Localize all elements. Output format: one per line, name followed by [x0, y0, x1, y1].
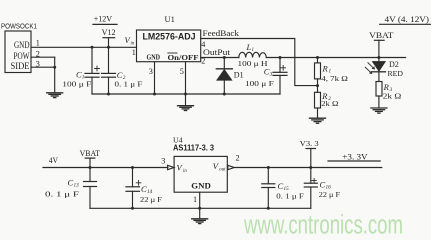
pin 3 number	[36, 59, 40, 68]
label R3	[383, 82, 393, 93]
capacitor C15	[262, 168, 275, 209]
junction pin1/bottom bus	[198, 207, 201, 210]
label RED	[388, 69, 404, 78]
svg-text:1: 1	[193, 195, 197, 204]
label U4	[173, 136, 183, 145]
svg-text:in: in	[183, 169, 187, 174]
svg-text:0. 1 μ F: 0. 1 μ F	[276, 191, 304, 200]
svg-text:1: 1	[132, 48, 136, 57]
junction V12/C2/rail	[107, 46, 110, 49]
svg-text:2k Ω: 2k Ω	[321, 99, 338, 108]
regulator U1 box	[137, 30, 201, 62]
pin arrow Vin (U4)	[168, 165, 174, 169]
diode D1	[216, 58, 232, 95]
pin name OutPut	[203, 47, 231, 57]
svg-text:1: 1	[252, 48, 255, 53]
value 0.1uF (C13)	[45, 190, 80, 199]
connector POWSOCK1	[1, 22, 37, 73]
pin name Vout (U4)	[213, 161, 226, 172]
net label 4V (4.12V)	[380, 14, 431, 25]
wire bus to ground symbol	[185, 94, 187, 106]
svg-text:On/OFF: On/OFF	[168, 53, 199, 62]
capacitor C13	[84, 168, 97, 209]
label C13	[68, 177, 80, 188]
svg-text:LM2576-ADJ: LM2576-ADJ	[143, 32, 196, 42]
svg-text:GND: GND	[147, 52, 161, 61]
junction C2/bus	[107, 93, 110, 96]
svg-text:GND: GND	[191, 181, 211, 190]
capacitor C2	[102, 47, 116, 94]
watermark www.cntronics.com	[243, 210, 403, 240]
junction VBAT/rail	[377, 56, 380, 59]
junction pin3	[53, 66, 56, 69]
wire POW/SIDE to ground	[54, 57, 56, 92]
svg-text:V12: V12	[102, 27, 116, 37]
value 22uF (C14)	[140, 195, 163, 204]
svg-text:D2: D2	[389, 60, 399, 69]
pin number 1 (U1)	[132, 48, 136, 57]
label C15	[278, 181, 290, 192]
svg-text:www.cntronics.com: www.cntronics.com	[243, 210, 403, 240]
wire ground bus	[92, 93, 280, 95]
svg-text:4V: 4V	[49, 156, 58, 165]
svg-text:out: out	[219, 167, 226, 172]
junction D1/bus	[223, 93, 226, 96]
junction C15/bus	[267, 207, 270, 210]
value 100uF (C1)	[62, 80, 92, 89]
svg-text:V3. 3: V3. 3	[300, 139, 319, 148]
svg-text:1: 1	[36, 38, 40, 47]
svg-text:2k Ω: 2k Ω	[383, 92, 402, 101]
junction C3	[279, 56, 282, 59]
value 4.7k (R1)	[321, 74, 348, 83]
pin name On/OFF (U1)	[168, 53, 199, 62]
pin number 1 (U4)	[193, 195, 197, 204]
pin number 2 (U1)	[201, 56, 205, 65]
label U1	[165, 14, 175, 24]
ground (main bus)	[178, 106, 194, 111]
junction D1	[223, 56, 226, 59]
label R1	[322, 64, 332, 75]
label C3	[264, 67, 273, 78]
power port V12	[102, 27, 116, 47]
wire feedback	[201, 39, 318, 86]
wire SIDE pin 3	[31, 66, 55, 68]
junction pin3/bus	[153, 93, 156, 96]
ground (R3)	[371, 108, 387, 113]
svg-text:22 μ F: 22 μ F	[319, 190, 341, 199]
net label +3.3V	[328, 152, 380, 162]
junction C1/rail	[91, 46, 94, 49]
value 100uF (C3)	[245, 79, 275, 88]
wire 12V input rail	[31, 46, 137, 48]
wire U1 GND pin 3	[154, 62, 156, 94]
LED D2	[365, 58, 385, 74]
pin name GND (U4)	[191, 181, 211, 190]
wire output rail	[201, 57, 406, 59]
svg-text:3: 3	[149, 67, 153, 76]
pin number 5 (U1)	[180, 67, 184, 76]
svg-text:RED: RED	[388, 69, 404, 78]
label C1	[76, 69, 85, 80]
pin 2 number	[36, 49, 40, 58]
svg-text:U1: U1	[165, 14, 175, 24]
pin number 3 (U1)	[149, 67, 153, 76]
pin name GND (U1)	[147, 52, 161, 61]
svg-text:R: R	[322, 64, 329, 74]
svg-text:+3. 3V: +3. 3V	[342, 152, 368, 162]
svg-text:GND: GND	[14, 40, 30, 50]
svg-text:R: R	[383, 82, 390, 92]
svg-text:14: 14	[147, 188, 153, 195]
label C14	[141, 184, 153, 195]
ground (R2)	[310, 118, 326, 123]
svg-text:3: 3	[270, 72, 273, 78]
svg-text:D1: D1	[234, 70, 244, 79]
ground (power socket)	[47, 93, 63, 98]
resistor R1	[315, 58, 321, 86]
svg-text:POWSOCK1: POWSOCK1	[1, 22, 37, 31]
label D2	[389, 60, 399, 69]
wire U4 GND pin 1	[199, 192, 201, 218]
value 22uF (C16)	[319, 190, 341, 199]
svg-text:VBAT: VBAT	[369, 30, 394, 40]
junction pin5/bus	[184, 93, 187, 96]
label C2	[117, 70, 126, 81]
junction C14/rail	[131, 166, 134, 169]
svg-text:in: in	[131, 41, 135, 46]
svg-text:SIDE: SIDE	[11, 61, 30, 71]
svg-text:4, 7k Ω: 4, 7k Ω	[321, 74, 348, 83]
pin arrow Vout (U4)	[228, 165, 234, 169]
label 4V (bottom)	[49, 156, 58, 165]
power port VBAT (top)	[369, 30, 394, 57]
junction C15/rail	[267, 166, 270, 169]
capacitor C3	[273, 58, 287, 95]
power +12V label	[93, 14, 117, 25]
value 100uH (L1)	[238, 59, 268, 68]
value 0.1uF (C15)	[276, 191, 304, 200]
label L1	[246, 42, 255, 53]
svg-text:2: 2	[236, 154, 240, 163]
wire bottom ground bus	[90, 207, 311, 209]
power port VBAT (bottom)	[80, 148, 101, 168]
power port V3.3	[300, 139, 319, 168]
pin 1 number	[36, 38, 40, 47]
svg-text:VBAT: VBAT	[80, 148, 101, 158]
svg-text:+12V: +12V	[94, 14, 113, 24]
pin name Vin (U4)	[177, 163, 188, 174]
resistor R3	[376, 72, 382, 108]
wire 4V rail (bottom)	[43, 167, 168, 169]
svg-text:FeedBack: FeedBack	[203, 28, 240, 38]
label D1	[234, 70, 244, 79]
svg-text:13: 13	[74, 182, 80, 188]
value 2k (R2)	[321, 99, 338, 108]
wire POW pin 2	[31, 56, 55, 58]
pin name FeedBack	[203, 28, 240, 38]
ground (U4)	[192, 219, 208, 224]
junction VBAT/C13	[89, 166, 92, 169]
junction feedback/R1/R2	[316, 84, 319, 87]
capacitor C14	[126, 168, 141, 209]
svg-text:100 μ F: 100 μ F	[245, 79, 275, 88]
wire U1 ON/OFF pin 5	[185, 62, 187, 94]
svg-text:3: 3	[161, 156, 165, 165]
junction V3.3/C16/rail	[309, 166, 312, 169]
svg-text:POW: POW	[14, 51, 30, 61]
label LM2576-ADJ	[143, 32, 196, 42]
pin name Vin (U1)	[125, 35, 135, 46]
svg-text:OutPut: OutPut	[203, 47, 231, 57]
pin number 3 (U4)	[161, 156, 165, 165]
junction R1/rail	[316, 56, 319, 59]
svg-text:5: 5	[180, 67, 184, 76]
svg-text:4V (4. 12V): 4V (4. 12V)	[385, 14, 430, 24]
label AS1117-3.3	[173, 144, 215, 153]
pin number 4	[201, 40, 205, 49]
svg-text:22 μ F: 22 μ F	[140, 195, 163, 204]
label R2	[321, 91, 331, 102]
label C16	[320, 180, 332, 191]
svg-text:0. 1 μ F: 0. 1 μ F	[115, 80, 144, 89]
regulator U4 box	[174, 156, 227, 192]
svg-text:100 μ F: 100 μ F	[62, 80, 92, 89]
wire 3.3V output rail	[234, 167, 382, 169]
capacitor C16	[304, 168, 317, 209]
pin number 2 (U4)	[236, 154, 240, 163]
value 0.1uF (C2)	[115, 80, 144, 89]
svg-text:AS1117-3. 3: AS1117-3. 3	[173, 144, 215, 153]
junction C14/bus	[131, 207, 134, 210]
value 2k (R3)	[383, 92, 402, 101]
resistor R2	[315, 86, 321, 118]
capacitor C1	[85, 47, 99, 94]
inductor L1	[239, 52, 266, 57]
svg-text:0. 1 μ F: 0. 1 μ F	[45, 190, 80, 199]
